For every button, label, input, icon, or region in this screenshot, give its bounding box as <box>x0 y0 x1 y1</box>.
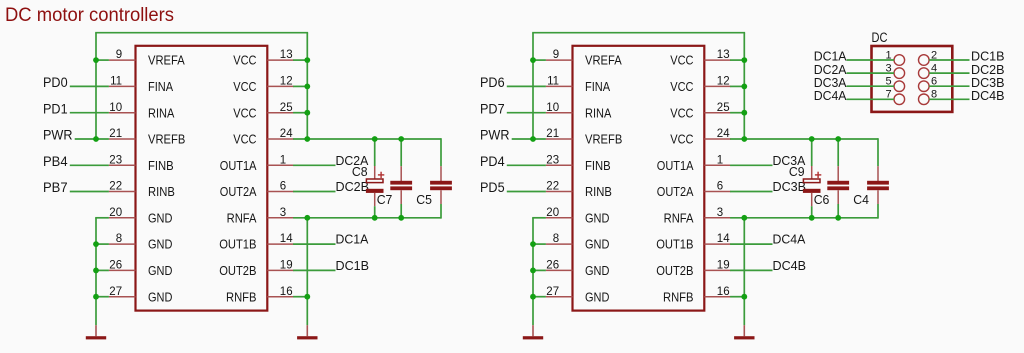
junction U2 C6 top <box>835 136 841 142</box>
connector DC pin 2 pad <box>919 55 930 66</box>
svg-text:19: 19 <box>717 260 730 272</box>
svg-text:DC1A: DC1A <box>336 233 369 247</box>
svg-text:10: 10 <box>109 102 122 114</box>
junction U1 GND pin27 <box>93 294 99 300</box>
svg-text:1: 1 <box>717 154 723 166</box>
wire U2 pin24 VCC to capacitors <box>730 138 878 140</box>
wire VCC top loop U2: right riser <box>743 33 745 139</box>
svg-text:RNFB: RNFB <box>226 289 257 304</box>
svg-text:9: 9 <box>553 49 559 61</box>
capacitor C8 (polarized) <box>366 139 384 218</box>
svg-text:3: 3 <box>717 207 723 219</box>
svg-text:VCC: VCC <box>670 79 693 94</box>
junction U1 VCC pin25 <box>304 110 310 116</box>
wire PWR to U2 <box>512 138 546 140</box>
U2 pin 6 (OUT2A) <box>657 181 731 200</box>
U1 pin 23 (FINB) <box>109 154 174 173</box>
svg-text:VREFB: VREFB <box>585 132 622 147</box>
wire VCC top loop U1: top horizontal <box>95 32 308 34</box>
junction U2 RNFA/GND <box>741 215 747 221</box>
svg-text:23: 23 <box>546 154 559 166</box>
svg-text:RNFA: RNFA <box>227 210 257 225</box>
svg-text:PD7: PD7 <box>480 100 505 116</box>
junction U1 C7 top <box>398 136 404 142</box>
svg-text:FINA: FINA <box>585 79 610 94</box>
junction U1 C8 bottom <box>372 215 378 221</box>
ground symbol right of U1 <box>297 325 317 339</box>
svg-text:11: 11 <box>547 76 559 88</box>
U1 pin 20 (GND) <box>109 207 172 226</box>
wire PD4 to U2 <box>507 164 546 166</box>
U2 pin 10 (RINA) <box>546 102 612 121</box>
IC U1 body <box>136 46 268 311</box>
svg-text:DC3B: DC3B <box>971 76 1005 90</box>
svg-text:11: 11 <box>110 76 122 88</box>
junction U1 GND pin8 <box>93 241 99 247</box>
svg-text:20: 20 <box>109 207 122 219</box>
svg-text:VCC: VCC <box>233 53 256 68</box>
svg-text:25: 25 <box>280 102 293 114</box>
junction U2 C9 top <box>809 136 815 142</box>
svg-text:6: 6 <box>717 181 723 193</box>
U1 pin 22 (RINB) <box>109 181 175 200</box>
U1 pin 11 (FINA) <box>109 76 173 95</box>
svg-text:1: 1 <box>280 154 286 166</box>
wire U1 RNFA (pin3) to capacitors <box>293 217 441 219</box>
wire U1 GND left vertical <box>95 218 97 325</box>
svg-text:21: 21 <box>546 128 559 140</box>
svg-text:DC2B: DC2B <box>336 180 370 194</box>
wire connector pin 6 to DC3B <box>929 85 969 87</box>
svg-text:25: 25 <box>717 102 730 114</box>
junction U1 VREFB/PWR <box>93 136 99 142</box>
svg-text:12: 12 <box>280 76 293 88</box>
connector DC pin 6 pad <box>919 81 930 92</box>
svg-text:OUT1B: OUT1B <box>656 237 693 252</box>
svg-text:GND: GND <box>148 263 172 278</box>
svg-text:FINB: FINB <box>585 158 611 173</box>
U1 pin 14 (OUT1B) <box>219 233 294 252</box>
wire U2 GND right vertical <box>743 218 745 325</box>
capacitor C9 (polarized) <box>803 139 821 218</box>
svg-text:DC3A: DC3A <box>814 76 847 90</box>
wire U1 RNFB (pin16) stub <box>293 296 307 298</box>
svg-text:GND: GND <box>148 237 172 252</box>
svg-text:GND: GND <box>585 263 609 278</box>
U2 pin 21 (VREFB) <box>546 128 622 147</box>
svg-text:PB7: PB7 <box>43 179 68 195</box>
connector DC pin 5 pad <box>894 81 905 92</box>
svg-text:DC4B: DC4B <box>971 89 1005 103</box>
wire DC3A to connector pin 5 <box>847 85 895 87</box>
svg-text:24: 24 <box>280 128 293 140</box>
svg-text:VCC: VCC <box>233 132 256 147</box>
svg-text:VCC: VCC <box>670 53 693 68</box>
junction U1 RNFB/GND <box>304 294 310 300</box>
capacitor C6 <box>827 139 849 218</box>
U2 pin 12 (VCC) <box>670 76 731 95</box>
wire PB7 to U1 <box>70 191 109 193</box>
wire U2 pin9 to riser <box>533 59 546 61</box>
U1 pin 24 (VCC) <box>233 128 294 147</box>
ground symbol right of U2 <box>734 325 754 339</box>
svg-text:DC1B: DC1B <box>971 50 1005 64</box>
wire U2 DC3B <box>730 191 772 193</box>
svg-text:19: 19 <box>280 260 293 272</box>
svg-text:VREFB: VREFB <box>148 132 185 147</box>
svg-text:PWR: PWR <box>480 127 510 143</box>
wire VCC top loop U2: left riser <box>532 33 534 139</box>
svg-text:13: 13 <box>280 49 293 61</box>
svg-text:DC motor controllers: DC motor controllers <box>5 4 174 26</box>
wire U2 DC4B <box>730 269 772 271</box>
svg-text:C4: C4 <box>853 193 869 207</box>
wire connector pin 4 to DC2B <box>929 72 969 74</box>
svg-text:VCC: VCC <box>670 132 693 147</box>
wire PB4 to U1 <box>70 164 109 166</box>
svg-text:PD6: PD6 <box>480 74 505 90</box>
wire U2 VCC pin 25 stub <box>730 112 744 114</box>
svg-text:RNFB: RNFB <box>663 289 694 304</box>
junction U2 GND pin8 <box>530 241 536 247</box>
U2 pin 9 (VREFA) <box>546 49 622 67</box>
svg-text:GND: GND <box>585 210 609 225</box>
junction U2 VCC pin13 <box>741 57 747 63</box>
wire U1 GND pin 20 stub <box>95 217 109 219</box>
U1 pin 13 (VCC) <box>233 49 294 67</box>
U1 pin 21 (VREFB) <box>109 128 185 147</box>
svg-text:DC1A: DC1A <box>814 50 847 64</box>
wire U1 DC2B <box>293 191 335 193</box>
wire U1 GND pin 8 stub <box>95 243 109 245</box>
junction U1 C7 bottom <box>398 215 404 221</box>
IC U2 body <box>573 46 705 311</box>
junction U2 VREFB/PWR <box>530 136 536 142</box>
svg-text:GND: GND <box>148 289 172 304</box>
connector DC pin 7 pad <box>894 94 905 105</box>
svg-text:DC4B: DC4B <box>773 259 807 273</box>
wire PD0 to U1 <box>70 85 109 87</box>
svg-text:20: 20 <box>546 207 559 219</box>
U1 pin 12 (VCC) <box>233 76 294 95</box>
svg-text:16: 16 <box>717 286 730 298</box>
connector DC body <box>872 46 953 112</box>
svg-text:C7: C7 <box>377 193 393 207</box>
junction U2 C6 bottom <box>835 215 841 221</box>
wire U2 GND pin 8 stub <box>532 243 546 245</box>
svg-text:OUT2B: OUT2B <box>219 263 256 278</box>
svg-text:PB4: PB4 <box>43 153 68 169</box>
wire connector pin 8 to DC4B <box>929 98 969 100</box>
U1 pin 9 (VREFA) <box>109 49 185 67</box>
svg-text:12: 12 <box>717 76 730 88</box>
svg-text:C8: C8 <box>352 165 368 179</box>
U1 pin 1 (OUT1A) <box>220 154 294 173</box>
wire PD1 to U1 <box>70 112 109 114</box>
wire PD6 to U2 <box>507 85 546 87</box>
svg-text:VCC: VCC <box>670 105 693 120</box>
svg-text:13: 13 <box>717 49 730 61</box>
U2 pin 26 (GND) <box>546 260 610 279</box>
svg-text:GND: GND <box>585 237 609 252</box>
junction U1 RNFA/GND <box>304 215 310 221</box>
svg-text:VREFA: VREFA <box>585 53 622 68</box>
wire DC1A to connector pin 1 <box>847 59 895 61</box>
U2 pin 27 (GND) <box>546 286 610 305</box>
svg-text:RINA: RINA <box>585 105 612 120</box>
svg-text:23: 23 <box>109 154 122 166</box>
svg-text:C6: C6 <box>814 193 830 207</box>
wire U1 GND pin 26 stub <box>95 269 109 271</box>
svg-text:DC3B: DC3B <box>773 180 807 194</box>
wire connector pin 2 to DC1B <box>929 59 969 61</box>
wire U2 GND pin 26 stub <box>532 269 546 271</box>
junction U2 VCC pin12 <box>741 84 747 90</box>
junction U2 C9 bottom <box>809 215 815 221</box>
wire U1 VCC pin 13 stub <box>293 59 307 61</box>
svg-text:FINB: FINB <box>148 158 174 173</box>
wire VCC top loop U1: left riser <box>95 33 97 139</box>
svg-text:RINA: RINA <box>148 105 175 120</box>
connector DC pin 1 pad <box>894 55 905 66</box>
svg-text:OUT1A: OUT1A <box>220 158 257 173</box>
junction U2 GND pin27 <box>530 294 536 300</box>
svg-text:9: 9 <box>116 49 122 61</box>
wire U2 GND pin 20 stub <box>532 217 546 219</box>
junction U1 pin9/riser <box>93 57 99 63</box>
capacitor C4 <box>867 138 889 218</box>
svg-text:22: 22 <box>109 181 122 193</box>
U1 pin 27 (GND) <box>109 286 172 305</box>
svg-text:OUT2A: OUT2A <box>220 184 257 199</box>
svg-text:PWR: PWR <box>43 127 73 143</box>
wire U2 DC3A <box>730 164 772 166</box>
U1 pin 6 (OUT2A) <box>220 181 294 200</box>
wire U1 DC1A <box>293 243 335 245</box>
wire VCC top loop U1: right riser <box>306 33 308 139</box>
U2 pin 24 (VCC) <box>670 128 731 147</box>
junction U1 VCC pin13 <box>304 57 310 63</box>
svg-text:FINA: FINA <box>148 79 173 94</box>
junction U2 RNFB/GND <box>741 294 747 300</box>
wire U2 RNFA (pin3) to capacitors <box>730 217 878 219</box>
U1 pin 26 (GND) <box>109 260 172 279</box>
wire U2 RNFB (pin16) stub <box>730 296 744 298</box>
svg-text:PD1: PD1 <box>43 100 68 116</box>
connector DC pin 4 pad <box>919 68 930 79</box>
connector DC pin 8 pad <box>919 94 930 105</box>
junction U2 pin9/riser <box>530 57 536 63</box>
svg-text:14: 14 <box>280 233 293 245</box>
U1 pin 3 (RNFA) <box>227 207 294 226</box>
wire U2 GND pin 27 stub <box>532 296 546 298</box>
svg-text:26: 26 <box>546 260 559 272</box>
U2 pin 16 (RNFB) <box>663 286 731 305</box>
U1 pin 25 (VCC) <box>233 102 294 121</box>
wire U1 DC2A <box>293 164 335 166</box>
wire VCC top loop U2: top horizontal <box>532 32 745 34</box>
wire U2 DC4A <box>730 243 772 245</box>
svg-text:22: 22 <box>546 181 559 193</box>
svg-text:GND: GND <box>148 210 172 225</box>
svg-text:27: 27 <box>109 286 122 298</box>
wire U1 DC1B <box>293 269 335 271</box>
svg-text:VREFA: VREFA <box>148 53 185 68</box>
svg-text:C9: C9 <box>789 165 805 179</box>
svg-text:C5: C5 <box>416 193 432 207</box>
junction U2 GND pin26 <box>530 268 536 274</box>
wire U1 VCC pin 12 stub <box>293 85 307 87</box>
U2 pin 25 (VCC) <box>670 102 731 121</box>
junction U2 VCC pin24 <box>741 136 747 142</box>
wire U2 GND left vertical <box>532 218 534 325</box>
svg-text:RINB: RINB <box>148 184 175 199</box>
U2 pin 8 (GND) <box>546 233 610 252</box>
U2 pin 19 (OUT2B) <box>656 260 731 279</box>
junction U2 VCC pin25 <box>741 110 747 116</box>
junction U1 VCC pin24 <box>304 136 310 142</box>
svg-text:PD5: PD5 <box>480 179 505 195</box>
wire U2 VCC pin 13 stub <box>730 59 744 61</box>
U2 pin 22 (RINB) <box>546 181 612 200</box>
svg-text:OUT1B: OUT1B <box>219 237 256 252</box>
U2 pin 3 (RNFA) <box>664 207 731 226</box>
U1 pin 16 (RNFB) <box>226 286 294 305</box>
wire U1 GND pin 27 stub <box>95 296 109 298</box>
svg-text:26: 26 <box>109 260 122 272</box>
U1 pin 19 (OUT2B) <box>219 260 294 279</box>
svg-text:8: 8 <box>553 233 559 245</box>
capacitor C5 <box>430 138 452 218</box>
U2 pin 13 (VCC) <box>670 49 731 67</box>
wire U1 pin24 VCC to capacitors <box>293 138 441 140</box>
svg-text:DC2B: DC2B <box>971 63 1005 77</box>
ground symbol left of U1 <box>86 325 106 339</box>
svg-text:14: 14 <box>717 233 730 245</box>
svg-text:VCC: VCC <box>233 105 256 120</box>
connector DC pin 3 pad <box>894 68 905 79</box>
U2 pin 1 (OUT1A) <box>657 154 731 173</box>
svg-text:OUT2B: OUT2B <box>656 263 693 278</box>
svg-text:10: 10 <box>546 102 559 114</box>
wire U1 GND right vertical <box>306 218 308 325</box>
U2 pin 20 (GND) <box>546 207 610 226</box>
U2 pin 11 (FINA) <box>546 76 610 95</box>
svg-text:8: 8 <box>116 233 122 245</box>
U2 pin 23 (FINB) <box>546 154 611 173</box>
wire U1 VCC pin 25 stub <box>293 112 307 114</box>
junction U1 VCC pin12 <box>304 84 310 90</box>
wire U1 pin9 to riser <box>96 59 109 61</box>
svg-text:VCC: VCC <box>233 79 256 94</box>
svg-text:3: 3 <box>280 207 286 219</box>
wire DC4A to connector pin 7 <box>847 98 895 100</box>
wire PD7 to U2 <box>507 112 546 114</box>
wire DC2A to connector pin 3 <box>847 72 895 74</box>
svg-text:DC4A: DC4A <box>814 89 847 103</box>
svg-text:GND: GND <box>585 289 609 304</box>
svg-text:DC1B: DC1B <box>336 259 370 273</box>
svg-text:DC4A: DC4A <box>773 233 806 247</box>
svg-text:PD4: PD4 <box>480 153 505 169</box>
U2 pin 14 (OUT1B) <box>656 233 731 252</box>
svg-text:RINB: RINB <box>585 184 612 199</box>
svg-text:PD0: PD0 <box>43 74 68 90</box>
U1 pin 8 (GND) <box>109 233 172 252</box>
svg-text:DC2A: DC2A <box>814 63 847 77</box>
svg-text:RNFA: RNFA <box>664 210 694 225</box>
svg-text:24: 24 <box>717 128 730 140</box>
wire PWR to U1 <box>75 138 109 140</box>
svg-text:16: 16 <box>280 286 293 298</box>
ground symbol left of U2 <box>523 325 543 339</box>
wire PD5 to U2 <box>507 191 546 193</box>
capacitor C7 <box>390 139 412 218</box>
svg-text:6: 6 <box>280 181 286 193</box>
svg-text:OUT1A: OUT1A <box>657 158 694 173</box>
svg-text:21: 21 <box>109 128 122 140</box>
junction U1 C8 top <box>372 136 378 142</box>
svg-text:DC: DC <box>872 30 888 45</box>
svg-text:27: 27 <box>546 286 559 298</box>
junction U1 GND pin26 <box>93 268 99 274</box>
U1 pin 10 (RINA) <box>109 102 175 121</box>
wire U2 VCC pin 12 stub <box>730 85 744 87</box>
svg-text:OUT2A: OUT2A <box>657 184 694 199</box>
